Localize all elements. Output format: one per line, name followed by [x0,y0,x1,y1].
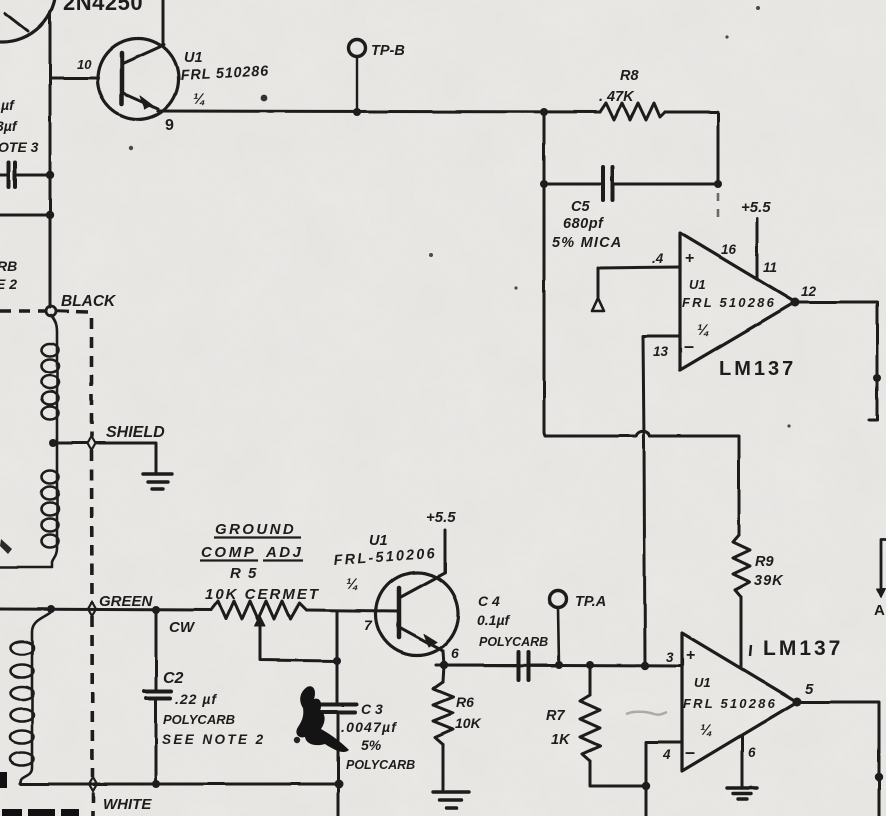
wire R5 to base [306,610,399,611]
svg-text:¼: ¼ [700,722,713,739]
small specks [129,6,791,428]
svg-text:R 5: R 5 [230,565,258,582]
svg-text:R8: R8 [620,68,639,84]
wire -in pin 13 down to op2 [643,336,680,666]
svg-text:POLYCARB: POLYCARB [346,758,415,772]
capacitor C3 [319,705,356,713]
wire op2 pin6 to ground [741,735,744,786]
junction C2 bottom [152,780,160,788]
svg-text:BLACK: BLACK [61,293,117,310]
wire R7 node down [645,786,648,816]
svg-text:R6: R6 [456,694,474,710]
svg-text:U1: U1 [689,277,706,292]
junction wiper/C3 [333,657,341,665]
svg-text:–: – [685,742,695,762]
svg-text:+: + [685,250,694,267]
svg-text:SHIELD: SHIELD [106,424,165,441]
svg-text:6: 6 [451,645,459,661]
label C5 [552,199,622,251]
svg-text:SEE NOTE 2: SEE NOTE 2 [162,732,266,747]
ground (shield) [143,474,172,489]
shield feedthrough diamond (WHITE) [89,777,97,791]
svg-text:OTE 3: OTE 3 [0,139,39,155]
junction op2 output [793,698,802,707]
junction R7 top [586,661,594,669]
svg-text:4: 4 [662,747,671,762]
svg-text:FRL 510286: FRL 510286 [682,295,776,310]
shield feedthrough diamond (SHIELD) [88,436,96,450]
wire op1 output pin 12 [795,302,877,420]
svg-text:13: 13 [653,344,669,359]
svg-text:+: + [686,647,695,664]
op1 pin labels [652,242,817,359]
junction output net right [873,374,881,382]
svg-text:.4: .4 [652,251,664,266]
ground (op2) [727,788,757,799]
partial left-edge text [0,97,39,292]
wire SHIELD tap [56,443,156,473]
pencil scribble [626,712,667,715]
svg-text:11: 11 [763,260,777,275]
svg-text:10K CERMET: 10K CERMET [205,586,320,603]
svg-text:¼: ¼ [193,91,206,108]
svg-text:680pf: 680pf [563,216,605,232]
bottom transistor labels [333,533,437,593]
label R7 [546,708,571,748]
svg-text:LM137: LM137 [719,358,796,380]
wire emitter row y112 [158,111,600,112]
svg-text:CW: CW [169,619,196,636]
svg-text:¼: ¼ [697,322,710,339]
svg-text:3µf: 3µf [0,118,18,134]
svg-text:C 4: C 4 [478,593,500,609]
svg-text:39K: 39K [754,573,784,589]
label GROUND COMP ADJ R5 [201,521,320,603]
faint dotted stub below C5 node [717,193,720,222]
junction TP-B [353,108,361,116]
shield feedthrough diamond (GREEN) [88,602,96,616]
svg-text:10: 10 [77,57,92,72]
ground (R6) [433,792,469,808]
svg-text:C 3: C 3 [361,701,383,717]
test point TP-A [550,591,567,666]
svg-text:GROUND: GROUND [215,521,296,538]
svg-text:A: A [874,602,885,619]
label C4 [477,593,548,649]
label R9 [754,554,784,589]
svg-text:5: 5 [805,681,814,698]
svg-text:LM137: LM137 [763,637,843,660]
svg-text:U1: U1 [694,675,711,690]
wire WHITE row y784 [20,783,339,786]
resistor R9 [733,535,750,597]
transformer winding (lower) [11,612,52,784]
wire collector of U1 to 2N4250 area [162,0,165,46]
resistor R5 [211,601,306,619]
ink speck (blob left of smudge) [294,737,300,743]
svg-text:+5.5: +5.5 [741,199,771,216]
svg-text:10K: 10K [455,715,482,731]
svg-text:R7: R7 [546,708,565,724]
wire R8 to corner [665,112,718,184]
svg-text:1K: 1K [551,732,571,748]
svg-text:RB: RB [0,258,17,274]
label C2 [162,670,266,747]
resistor R6 [433,665,453,791]
svg-text:TP.A: TP.A [575,594,606,610]
svg-text:¼: ¼ [346,576,359,593]
junction op2 output net bottom [875,773,883,781]
op-amp U1b LM137 (lower) [682,633,797,771]
svg-text:WHITE: WHITE [103,796,152,813]
transformer winding (upper) [0,315,59,567]
capacitor C2 [144,610,171,784]
svg-text:5%: 5% [361,737,382,753]
junction Q3 emitter/R6 [440,661,448,669]
black blocks bottom-left [0,772,79,816]
svg-text:+5.5: +5.5 [426,509,456,526]
svg-text:U1: U1 [184,50,203,66]
svg-text:. 47K: . 47K [599,89,635,105]
svg-text:3: 3 [666,650,674,665]
junction op1 output [791,298,800,307]
svg-text:–: – [684,336,694,356]
svg-text:.0047µf: .0047µf [341,719,397,735]
label U1 (top transistor) [180,50,269,108]
svg-text:9: 9 [165,117,174,134]
wire C3 branch vertical [337,611,338,816]
junction left bus / stub [46,211,54,219]
op2 pin labels [662,650,814,762]
svg-text:µf: µf [0,97,15,113]
wire +5.5 to op1 [756,218,759,278]
dashed shield line [0,311,93,816]
wire left bus vertical [49,12,52,307]
svg-text:12: 12 [801,284,817,299]
smudge left edge [0,539,12,554]
capacitor (partial, left edge) [0,163,50,187]
svg-text:2N4250: 2N4250 [63,0,143,15]
resistor R8 [600,103,665,120]
svg-text:7: 7 [364,617,373,633]
wire op2 output pin 5 [797,702,879,816]
capacitor C4 [444,652,559,680]
transistor U1 FRL510286 (top) [98,39,179,120]
wire C5 bus down [544,112,636,436]
wire +5.5 collector [444,530,447,573]
resistor R7 [580,665,646,786]
svg-text:FRL 510286: FRL 510286 [683,696,777,711]
svg-text:POLYCARB: POLYCARB [479,635,548,649]
junction TP-A [555,661,563,669]
wire +in row y666 [436,665,682,666]
transistor U1 FRL-510206 (bottom) [376,573,459,666]
junction op2 +in [641,662,649,670]
wiper R5 [255,616,337,661]
wire R9 to op-amp U1b top edge [740,597,743,668]
junction C2 top [152,606,160,614]
junction R8/C5 left [540,108,548,116]
svg-text:GREEN: GREEN [99,593,154,610]
wire +in pin 4 with net A arrow [592,267,680,311]
capacitor C5 [544,167,718,200]
svg-text:ADJ: ADJ [265,544,303,561]
junction shield tap [49,439,57,447]
net A (right edge) [877,540,886,598]
junction green/winding [47,605,55,613]
svg-text:C5: C5 [571,199,590,215]
svg-text:6: 6 [748,745,756,760]
junction C5 left [540,180,548,188]
junction left bus / cap [46,171,54,179]
wire to R9 corner [650,436,739,535]
svg-text:E 2: E 2 [0,276,17,292]
svg-text:TP-B: TP-B [371,43,405,59]
junction R7 bottom [642,782,650,790]
svg-text:0.1µf: 0.1µf [477,612,511,628]
svg-text:C2: C2 [163,670,184,687]
op-amp U1a LM137 (upper) [680,233,795,370]
ink blob smudge near C3 [296,686,349,752]
label C3 [341,701,415,772]
wire -in row y742 [646,742,682,786]
svg-text:POLYCARB: POLYCARB [163,712,235,727]
node BLACK (open circle) [46,306,56,316]
wire hop over vertical [636,431,650,436]
wire left stub [0,214,50,217]
svg-text:5% MICA: 5% MICA [552,235,622,251]
test point TP-B [349,40,366,111]
junction C5 right [714,180,722,188]
svg-text:.22 µf: .22 µf [175,691,217,707]
label R8 [599,68,639,105]
op2 pin1 tick [750,645,751,656]
wire base row y610 (GREEN to base) [0,609,211,610]
transistor Q 2N4250 (partial, top-left corner) [0,0,56,42]
svg-text:U1: U1 [369,533,388,549]
svg-text:R9: R9 [755,554,774,570]
wire base of U1 to left bus [50,77,98,80]
junction C3 bottom [335,780,344,789]
svg-text:COMP: COMP [201,544,256,561]
label R6 [455,694,482,731]
svg-text:16: 16 [721,242,737,257]
dark speck near transistor [261,95,268,102]
